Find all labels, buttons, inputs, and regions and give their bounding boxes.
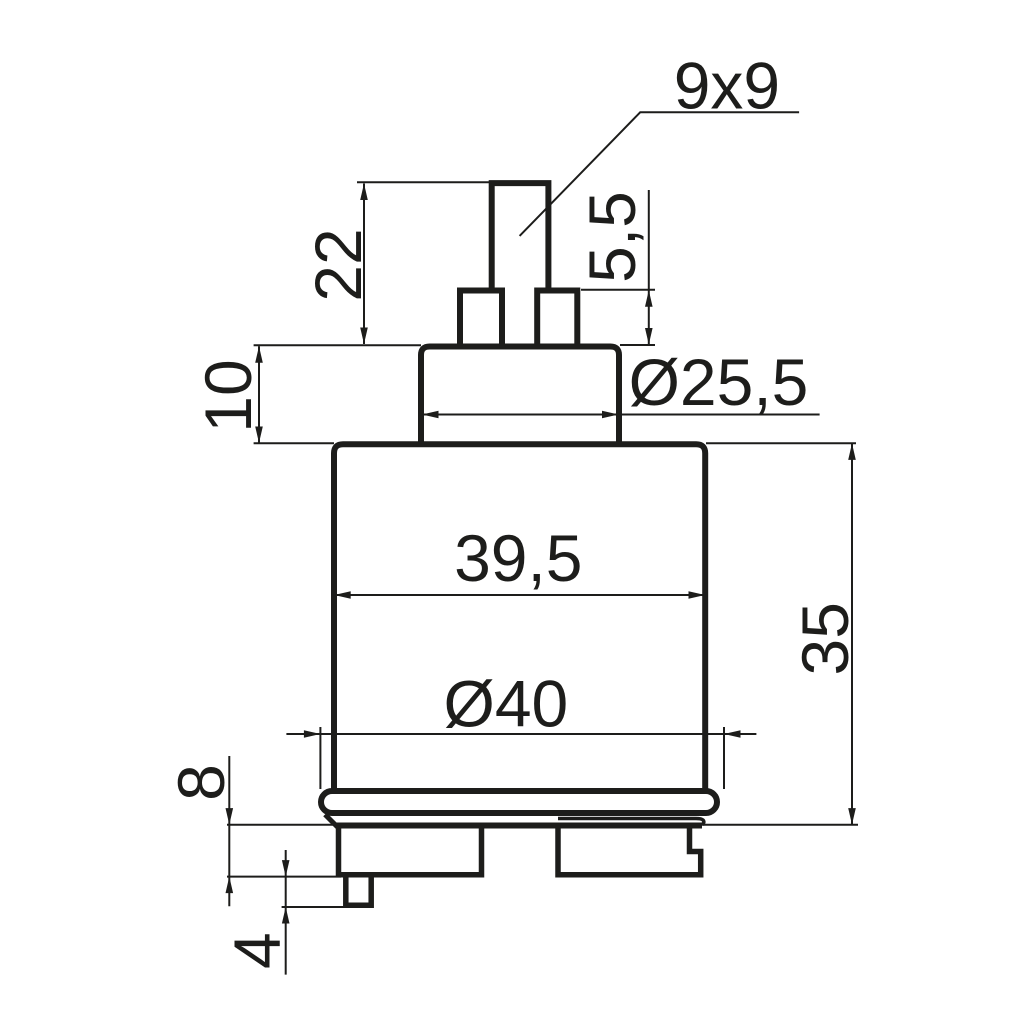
- svg-text:39,5: 39,5: [454, 521, 582, 595]
- leader line for 9x9: [520, 112, 800, 236]
- arrow 22 top: [360, 184, 368, 201]
- arrow 35 bottom: [848, 808, 856, 825]
- arrow 10 top: [255, 346, 263, 363]
- flange skirt left diagonal: [325, 815, 338, 828]
- svg-text:8: 8: [164, 764, 238, 801]
- stem (9x9 square shaft): [492, 183, 549, 291]
- spline tab left: [460, 291, 502, 348]
- dimension line 35: [851, 443, 853, 824]
- arrow d40 right (outside): [724, 730, 741, 738]
- collar (Ø25.5 neck): [421, 347, 619, 448]
- extension line tab bottom: [227, 876, 341, 878]
- extension line collar top right: [620, 344, 655, 346]
- flange skirt bottom edge: [336, 823, 702, 829]
- bottom tab left: [339, 826, 482, 875]
- arrow 4 bottom (outside): [282, 907, 290, 924]
- arrow 39,5 right: [689, 591, 706, 599]
- extension line body top right: [706, 442, 856, 444]
- extension line collar top left: [254, 344, 421, 346]
- arrow 39,5 left: [334, 591, 351, 599]
- arrow d25,5 left: [422, 411, 439, 419]
- extension line flange left: [319, 727, 321, 789]
- bottom nub: [346, 877, 371, 905]
- dimension line 22: [363, 184, 365, 345]
- arrow 22 bottom: [360, 328, 368, 345]
- arrow 5,5 top: [645, 290, 653, 307]
- extension line flange right: [723, 727, 725, 789]
- svg-text:4: 4: [220, 932, 294, 969]
- svg-text:22: 22: [301, 228, 375, 301]
- dimension line 39,5: [334, 594, 705, 596]
- extension line spline-tab top right: [581, 289, 655, 291]
- arrow d40 left (outside): [304, 730, 321, 738]
- bottom tab right (with step): [558, 826, 701, 875]
- svg-text:10: 10: [191, 359, 265, 432]
- svg-text:5,5: 5,5: [575, 191, 649, 283]
- svg-text:35: 35: [788, 602, 862, 675]
- dimension line 5,5: [648, 190, 650, 345]
- arrow 4 top (outside): [282, 860, 290, 877]
- dimension line 10: [258, 346, 260, 443]
- arrow 10 bottom: [255, 427, 263, 444]
- arrow 8 bottom (outside): [226, 877, 234, 894]
- bottom flange (Ø40 stadium ring): [321, 791, 717, 813]
- svg-text:9x9: 9x9: [674, 49, 780, 123]
- svg-text:Ø40: Ø40: [444, 666, 569, 740]
- extension line nub bottom: [282, 906, 345, 908]
- body (Ø39.5 cylinder): [334, 444, 705, 792]
- dimension line 8: [228, 756, 230, 906]
- flange under-edge line right: [558, 819, 704, 826]
- arrow 35 top: [848, 443, 856, 460]
- spline tab right: [537, 291, 577, 348]
- arrow 5,5 bottom: [645, 328, 653, 345]
- arrow 8 top (outside): [226, 808, 234, 825]
- dimension line diameter 40: [286, 733, 756, 735]
- extension line stem top: [357, 181, 490, 183]
- dimension line 4: [285, 850, 287, 975]
- svg-text:Ø25,5: Ø25,5: [629, 345, 809, 419]
- extension line flange bottom (8 / 35): [227, 824, 858, 826]
- extension line body top left: [254, 442, 334, 444]
- arrow d25,5 right: [602, 411, 619, 419]
- dimension line diameter 25,5: [422, 414, 820, 416]
